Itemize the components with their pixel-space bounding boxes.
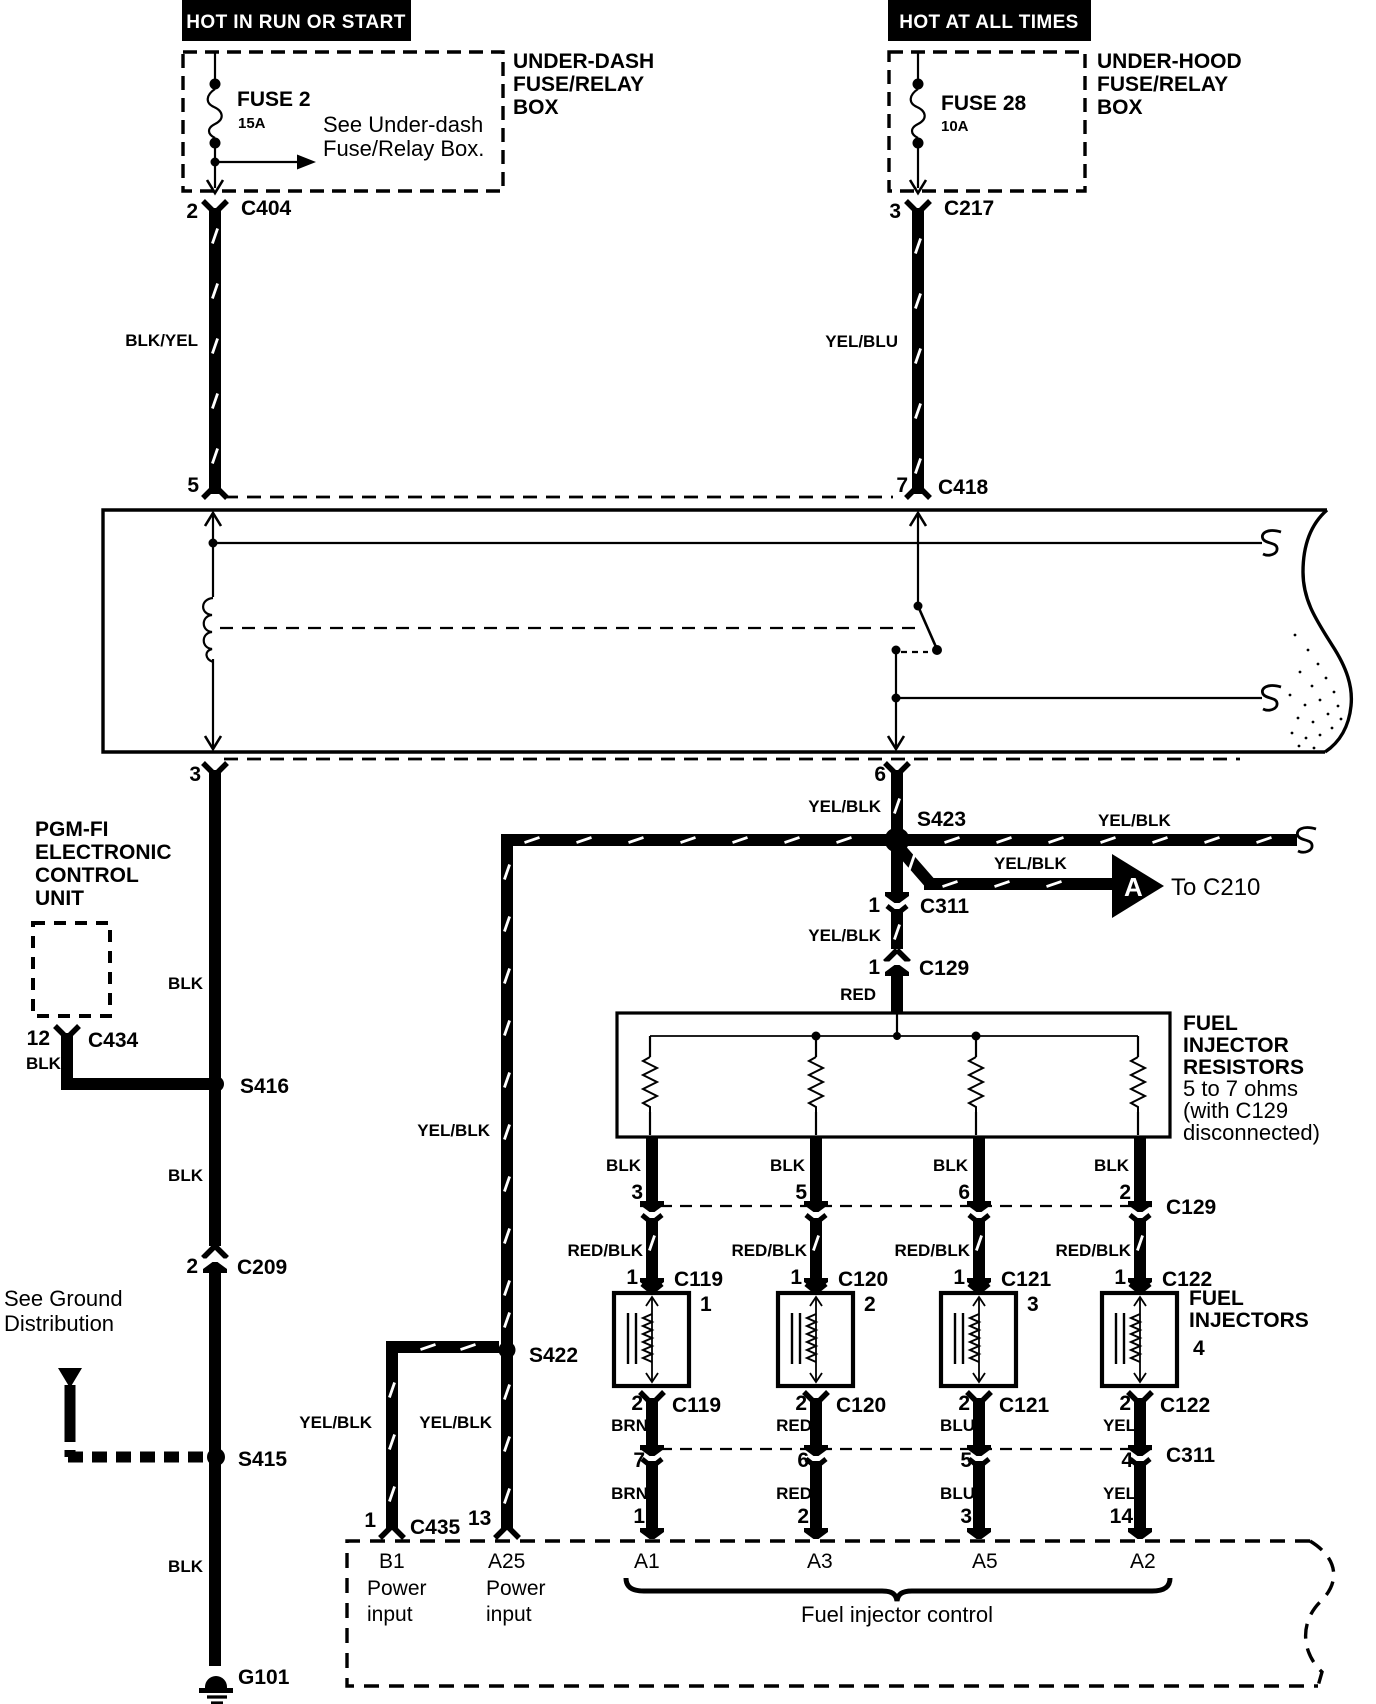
svg-text:UNIT: UNIT: [35, 887, 84, 910]
svg-text:A3: A3: [807, 1550, 833, 1573]
wire BLK (relay pin3 down to G101) upper part: [168, 770, 215, 1246]
label FUEL INJECTORS 4: [1189, 1287, 1309, 1360]
svg-text:YEL/BLK: YEL/BLK: [994, 854, 1067, 873]
svg-text:RED: RED: [776, 1416, 812, 1435]
wire BRN (injector1 to C311 pin 7): [611, 1398, 652, 1448]
fuel injector 4: [1102, 1293, 1177, 1386]
label FUEL INJECTOR RESISTORS: [1183, 1012, 1320, 1145]
svg-text:YEL/BLU: YEL/BLU: [825, 332, 898, 351]
ECU bottom box (dashed, torn right edge): [347, 1541, 1334, 1686]
wire BLK (C209 to G101): [168, 1272, 215, 1666]
svg-text:2: 2: [958, 1392, 970, 1415]
svg-text:FUSE 2: FUSE 2: [237, 88, 311, 111]
pin 5: [187, 474, 199, 497]
wire BLK (resistor 2 to C129 pin 5): [770, 1137, 816, 1204]
svg-text:BOX: BOX: [1097, 96, 1143, 119]
ECU terminal A25: [486, 1550, 546, 1626]
connector C120 pin 1: [790, 1266, 888, 1292]
svg-text:FUSE 28: FUSE 28: [941, 92, 1027, 115]
svg-text:A2: A2: [1130, 1550, 1156, 1573]
relay pin 6: [874, 763, 909, 786]
svg-text:HOT IN RUN OR START: HOT IN RUN OR START: [186, 12, 405, 33]
svg-text:Fuse/Relay Box.: Fuse/Relay Box.: [323, 136, 484, 161]
wire: contact output line to S-hook: [896, 686, 1281, 711]
connector C120 pin 2: [795, 1392, 886, 1417]
wire BLK (resistor 1 to C129 pin 3): [606, 1137, 652, 1204]
wire YEL/BLK vertical (S423 corner down to C435 pin 13): [417, 846, 519, 1538]
svg-text:RED: RED: [840, 985, 876, 1004]
svg-text:BLK: BLK: [26, 1054, 62, 1073]
svg-text:S422: S422: [529, 1344, 578, 1367]
svg-text:12: 12: [27, 1027, 50, 1050]
wire BRN (C311 to ECU A1): [611, 1461, 664, 1539]
svg-text:See Under-dash: See Under-dash: [323, 112, 483, 137]
svg-text:1: 1: [790, 1266, 802, 1289]
svg-text:FUEL: FUEL: [1189, 1287, 1244, 1310]
svg-text:3: 3: [631, 1181, 643, 1204]
wire YEL/BLK branch to C210 arrow: [895, 843, 1114, 887]
svg-text:C129: C129: [1166, 1196, 1216, 1219]
svg-text:5: 5: [795, 1181, 807, 1204]
svg-text:C418: C418: [938, 476, 989, 499]
connector C217 pin 3: [889, 197, 994, 223]
svg-text:1: 1: [1114, 1266, 1126, 1289]
svg-text:Distribution: Distribution: [4, 1311, 114, 1336]
under-dash fuse/relay box (dashed): [183, 52, 503, 191]
connector C122 pin 2: [1119, 1392, 1210, 1417]
svg-text:1: 1: [868, 894, 880, 917]
splice node S422: [499, 1342, 579, 1368]
svg-text:C434: C434: [88, 1029, 139, 1052]
svg-text:C311: C311: [920, 895, 969, 918]
fuel injector resistors box: [617, 1013, 1170, 1137]
wire BLK/YEL (C404 pin2 to relay pin5): [125, 208, 227, 498]
label UNDER-HOOD FUSE/RELAY BOX: [1097, 50, 1242, 119]
svg-text:BRN: BRN: [611, 1484, 648, 1503]
svg-text:BLU: BLU: [940, 1416, 975, 1435]
wire YEL/BLK main horizontal from S423 to S-hook: [501, 811, 1316, 852]
dashed actuation line from coil to contact: [220, 627, 918, 629]
svg-text:6: 6: [797, 1449, 809, 1472]
label PGM-FI ELECTRONIC CONTROL UNIT: [35, 818, 172, 910]
connector C435 pins 1 and 13: [364, 1507, 491, 1539]
relay pin 3: [189, 763, 227, 786]
pin arrow into C404: [207, 180, 223, 193]
under-hood fuse/relay box (dashed): [889, 52, 1085, 191]
svg-text:14: 14: [1110, 1505, 1134, 1528]
wire RED (C129 to resistor box): [840, 972, 897, 1012]
wire BLU (C311 to ECU A5): [940, 1461, 991, 1539]
fuel injector 1: [614, 1293, 712, 1386]
connector C121 pin 2: [958, 1392, 1049, 1417]
wire RED (C311 to ECU A3): [776, 1461, 828, 1539]
wire RED/BLK (to injector 3): [894, 1218, 981, 1279]
svg-text:G101: G101: [238, 1666, 290, 1689]
arrow to note (see under-dash fuse/relay box): [215, 155, 316, 170]
svg-text:2: 2: [1119, 1181, 1131, 1204]
svg-text:5: 5: [187, 474, 199, 497]
wire YEL (C311 to ECU A2): [1103, 1461, 1152, 1539]
svg-text:BLK: BLK: [1094, 1156, 1130, 1175]
fuse F2 (FUSE 2 15A): [208, 52, 222, 188]
svg-text:FUSE/RELAY: FUSE/RELAY: [1097, 73, 1228, 96]
arrow A to C210: [1112, 854, 1260, 918]
wire YEL/BLK branch (S422 to C435 pin 1): [299, 1344, 499, 1538]
svg-text:S415: S415: [238, 1448, 287, 1471]
ECU terminal B1: [367, 1550, 427, 1626]
dashed wire from stub to S415: [68, 1429, 204, 1457]
svg-text:BLK: BLK: [168, 1166, 204, 1185]
svg-text:BLK: BLK: [933, 1156, 969, 1175]
svg-text:YEL/BLK: YEL/BLK: [1098, 811, 1171, 830]
svg-text:RED/BLK: RED/BLK: [894, 1241, 970, 1260]
svg-text:UNDER-DASH: UNDER-DASH: [513, 50, 654, 73]
svg-text:C209: C209: [237, 1256, 287, 1279]
svg-text:RED/BLK: RED/BLK: [567, 1241, 643, 1260]
wire RED/BLK (to injector 1): [567, 1218, 654, 1279]
fuse F28 (FUSE 28 10A): [911, 52, 925, 188]
svg-text:7: 7: [633, 1449, 645, 1472]
svg-text:YEL/BLK: YEL/BLK: [299, 1413, 372, 1432]
svg-text:15A: 15A: [238, 115, 266, 132]
resistor R2: [809, 1036, 823, 1135]
pin arrow into C217: [910, 180, 926, 193]
svg-text:6: 6: [874, 763, 886, 786]
svg-text:5: 5: [960, 1449, 972, 1472]
svg-text:A1: A1: [634, 1550, 660, 1573]
svg-text:4: 4: [1121, 1449, 1133, 1472]
svg-text:See Ground: See Ground: [4, 1286, 123, 1311]
label: HOT IN RUN OR START: [182, 0, 411, 41]
svg-text:YEL: YEL: [1103, 1416, 1136, 1435]
connector C122 pin 1: [1114, 1266, 1212, 1292]
resistor R3: [969, 1036, 983, 1135]
svg-text:A: A: [1124, 872, 1143, 902]
svg-text:2: 2: [864, 1293, 876, 1316]
ECU dashed box: [33, 923, 110, 1016]
svg-text:input: input: [486, 1603, 532, 1626]
relay contact branch (right, pin7 to pin6): [888, 513, 942, 749]
svg-text:A25: A25: [488, 1550, 525, 1573]
svg-text:C311: C311: [1166, 1444, 1215, 1467]
relay box (PGM-FI main relay) with torn right edge: [103, 510, 1351, 752]
ground G101: [199, 1666, 290, 1703]
svg-text:RED: RED: [776, 1484, 812, 1503]
svg-text:BLK: BLK: [168, 974, 204, 993]
svg-text:C122: C122: [1160, 1394, 1210, 1417]
resistor R4: [1131, 1036, 1145, 1135]
fuel injector 3: [941, 1293, 1039, 1386]
svg-text:YEL/BLK: YEL/BLK: [419, 1413, 492, 1432]
note text: [323, 112, 484, 161]
svg-text:RED/BLK: RED/BLK: [731, 1241, 807, 1260]
svg-text:BLU: BLU: [940, 1484, 975, 1503]
wire BLU (injector3 to C311 pin 5): [940, 1398, 979, 1448]
connector C209 pin 2: [186, 1246, 287, 1279]
label UNDER-DASH FUSE/RELAY BOX: [513, 50, 654, 119]
wire YEL/BLK (C311 to C129): [894, 909, 899, 949]
svg-text:S423: S423: [917, 808, 966, 831]
svg-text:3: 3: [889, 200, 901, 223]
junction node in fuse box: [211, 158, 220, 167]
wire YEL/BLK (S423 to C311): [808, 846, 897, 945]
resistor bus wire: [650, 1014, 1138, 1041]
value label FUSE 2 15A: [237, 88, 311, 132]
resistor R1: [643, 1036, 657, 1135]
C311 row connector halves with pin numbers 7 6 5 4: [633, 1445, 1152, 1472]
ECU terminal A5: [972, 1550, 998, 1573]
svg-text:C129: C129: [919, 957, 969, 980]
svg-text:BOX: BOX: [513, 96, 559, 119]
svg-text:INJECTOR: INJECTOR: [1183, 1034, 1289, 1057]
label: HOT AT ALL TIMES: [888, 0, 1091, 41]
wire YEL (injector4 to C311 pin 4): [1103, 1398, 1140, 1448]
svg-text:1: 1: [700, 1293, 712, 1316]
svg-text:1: 1: [953, 1266, 965, 1289]
connector C119 pin 2: [631, 1392, 721, 1417]
svg-text:2: 2: [797, 1505, 809, 1528]
svg-text:C217: C217: [944, 197, 994, 220]
svg-text:input: input: [367, 1603, 413, 1626]
ECU terminal A1: [634, 1550, 660, 1573]
svg-text:A5: A5: [972, 1550, 998, 1573]
connector C311 dashed row: [640, 1444, 1215, 1467]
svg-text:BLK: BLK: [770, 1156, 806, 1175]
svg-text:YEL: YEL: [1103, 1484, 1136, 1503]
svg-text:To C210: To C210: [1171, 874, 1260, 901]
wire RED/BLK (to injector 2): [731, 1218, 818, 1279]
svg-text:2: 2: [186, 1255, 198, 1278]
svg-text:ELECTRONIC: ELECTRONIC: [35, 841, 172, 864]
svg-text:disconnected): disconnected): [1183, 1120, 1320, 1145]
splice node S423: [885, 808, 967, 853]
svg-text:BRN: BRN: [611, 1416, 648, 1435]
svg-text:Fuel injector control: Fuel injector control: [801, 1602, 993, 1627]
splice node S416: [208, 1075, 289, 1098]
connector C119 pin 1: [626, 1266, 723, 1292]
wire BLK (resistor 3 to C129 pin 6): [933, 1137, 979, 1204]
C129 row connector halves: [640, 1201, 1152, 1223]
brace: fuel injector control group: [626, 1578, 1170, 1627]
svg-text:10A: 10A: [941, 118, 969, 135]
wire BLK (resistor 4 to C129 pin 2): [1094, 1137, 1140, 1204]
svg-text:1: 1: [626, 1266, 638, 1289]
wire YEL/BLK (relay pin6 to S423): [808, 770, 899, 834]
svg-text:3: 3: [189, 763, 201, 786]
connector C121 pin 1: [953, 1266, 1051, 1292]
svg-text:HOT AT ALL TIMES: HOT AT ALL TIMES: [899, 12, 1079, 33]
svg-text:BLK: BLK: [606, 1156, 642, 1175]
svg-text:2: 2: [1119, 1392, 1131, 1415]
svg-text:BLK/YEL: BLK/YEL: [125, 331, 198, 350]
svg-text:4: 4: [1193, 1337, 1205, 1360]
svg-text:INJECTORS: INJECTORS: [1189, 1309, 1309, 1332]
svg-text:Power: Power: [486, 1577, 546, 1600]
svg-text:2: 2: [795, 1392, 807, 1415]
wire YEL/BLU (C217 pin3 to relay pin7): [825, 208, 930, 498]
svg-text:C120: C120: [838, 1268, 888, 1291]
svg-text:1: 1: [633, 1505, 645, 1528]
wire: coil top feed line to S-hook: [217, 531, 1281, 556]
wire BLK from C434 to S416: [67, 1033, 212, 1084]
svg-text:1: 1: [364, 1509, 376, 1532]
relay coil branch (left, pin5 to pin3): [203, 513, 221, 749]
ECU terminal A2: [1130, 1550, 1156, 1573]
svg-text:C121: C121: [1001, 1268, 1052, 1291]
stipple shading on torn edge: [1289, 634, 1343, 750]
ECU terminal A3: [807, 1550, 833, 1573]
svg-text:C120: C120: [836, 1394, 886, 1417]
connector C129 pin 1: [868, 950, 969, 980]
svg-text:FUSE/RELAY: FUSE/RELAY: [513, 73, 644, 96]
svg-text:YEL/BLK: YEL/BLK: [808, 797, 881, 816]
value label FUSE 28 10A: [941, 92, 1027, 135]
svg-text:2: 2: [631, 1392, 643, 1415]
splice node S415: [207, 1448, 287, 1471]
svg-text:13: 13: [468, 1507, 491, 1530]
svg-text:YEL/BLK: YEL/BLK: [808, 926, 881, 945]
svg-text:3: 3: [1027, 1293, 1039, 1316]
svg-text:3: 3: [960, 1505, 972, 1528]
svg-text:RED/BLK: RED/BLK: [1055, 1241, 1131, 1260]
dashed connector line below relay: [224, 758, 1240, 761]
pin 7 / connector C418: [896, 474, 988, 499]
svg-text:PGM-FI: PGM-FI: [35, 818, 109, 841]
svg-text:S416: S416: [240, 1075, 289, 1098]
svg-text:Power: Power: [367, 1577, 427, 1600]
svg-text:C119: C119: [674, 1268, 723, 1291]
svg-text:BLK: BLK: [168, 1557, 204, 1576]
svg-text:UNDER-HOOD: UNDER-HOOD: [1097, 50, 1242, 73]
svg-text:B1: B1: [379, 1550, 405, 1573]
svg-text:2: 2: [186, 200, 198, 223]
svg-text:1: 1: [868, 956, 880, 979]
connector C434 pin 12: [26, 1026, 139, 1073]
dashed connector line between pin5 and pin7: [224, 496, 893, 499]
svg-text:YEL/BLK: YEL/BLK: [417, 1121, 490, 1140]
svg-text:CONTROL: CONTROL: [35, 864, 139, 887]
svg-text:6: 6: [958, 1181, 970, 1204]
connector C129 dashed row: [640, 1196, 1216, 1219]
svg-text:7: 7: [896, 474, 908, 497]
wire RED/BLK (to injector 4): [1055, 1218, 1142, 1279]
fuel injector 2: [778, 1293, 876, 1386]
svg-text:C121: C121: [999, 1394, 1050, 1417]
wire RED (injector2 to C311 pin 6): [776, 1398, 816, 1448]
connector C404 pin 2: [186, 197, 291, 223]
svg-text:FUEL: FUEL: [1183, 1012, 1238, 1035]
note See Ground Distribution: [4, 1286, 123, 1336]
connector C311 pin 1: [868, 892, 969, 918]
svg-text:C119: C119: [672, 1394, 721, 1417]
svg-text:C404: C404: [241, 197, 292, 220]
ground distribution stub (antenna symbol): [58, 1368, 82, 1429]
svg-text:C435: C435: [410, 1516, 461, 1539]
